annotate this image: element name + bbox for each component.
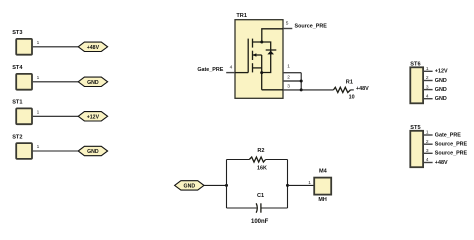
svg-text:M4: M4: [319, 168, 328, 174]
resistor R1: [334, 80, 355, 101]
channel top segment: [252, 39, 254, 48]
node RC right junction: [286, 184, 289, 187]
power port +48V: [78, 42, 107, 51]
pin 3 of ST5: [424, 148, 433, 154]
connector ST1: [12, 100, 32, 125]
gate plate: [247, 39, 249, 73]
channel bottom segment: [252, 63, 254, 72]
capacitor C1: [251, 193, 269, 225]
drain lead: [253, 29, 284, 42]
svg-text:TR1: TR1: [236, 13, 247, 19]
svg-text:1: 1: [426, 130, 429, 136]
svg-text:100nF: 100nF: [251, 219, 269, 225]
svg-text:Source_PRE: Source_PRE: [435, 151, 468, 157]
body diode branch wire: [262, 42, 271, 73]
svg-text:1: 1: [37, 144, 40, 150]
wire ST4 to GND port: [33, 81, 78, 83]
svg-text:ST3: ST3: [12, 30, 22, 36]
node pin2 junction: [300, 80, 303, 83]
mounting hole M4: [314, 168, 331, 202]
svg-text:Gate_PRE: Gate_PRE: [197, 67, 223, 73]
pin 2 of ST5: [424, 139, 433, 145]
svg-text:1: 1: [287, 64, 290, 70]
wire top branch left: [227, 159, 250, 161]
svg-text:1: 1: [426, 66, 429, 72]
wire to R1: [301, 89, 333, 91]
svg-text:1: 1: [37, 40, 40, 46]
svg-text:GND: GND: [87, 80, 99, 86]
transistor TR1: [235, 13, 283, 99]
svg-text:1: 1: [37, 109, 40, 115]
svg-text:GND: GND: [87, 149, 99, 155]
pin 4 of TR1: [226, 65, 235, 73]
pin 2 of TR1: [283, 74, 301, 81]
source bottom lead to pin 3: [262, 89, 283, 91]
power port +12V: [78, 112, 107, 121]
wire GND to RC network: [204, 184, 227, 186]
pin 3 of ST6: [424, 84, 433, 90]
svg-text:1: 1: [308, 180, 311, 186]
svg-text:2: 2: [287, 74, 290, 80]
power port GND: [78, 146, 107, 155]
svg-text:10: 10: [349, 94, 355, 100]
svg-text:4: 4: [426, 93, 429, 99]
channel middle segment: [252, 51, 254, 60]
svg-text:R2: R2: [257, 148, 264, 154]
svg-text:5: 5: [286, 21, 289, 27]
connector ST5: [410, 125, 423, 167]
power port GND: [175, 181, 204, 190]
svg-text:ST2: ST2: [12, 134, 22, 140]
source vertical wire: [261, 55, 263, 90]
svg-text:+12V: +12V: [435, 69, 448, 75]
pin 1 of ST6: [424, 66, 433, 72]
pin 4 of ST6: [424, 93, 433, 99]
svg-text:GND: GND: [435, 78, 447, 84]
body diode cathode bar: [266, 49, 277, 51]
power port GND: [78, 77, 107, 86]
connector ST2: [12, 134, 32, 159]
body diode anode triangle: [267, 51, 274, 55]
svg-text:+12V: +12V: [87, 114, 100, 120]
node pin3 junction: [300, 88, 303, 91]
wire R1 to net label: [351, 89, 354, 91]
svg-text:Source_PRE: Source_PRE: [435, 142, 468, 148]
svg-text:R1: R1: [346, 80, 353, 86]
body arrow: [253, 53, 262, 57]
pin 1 of ST5: [424, 130, 433, 136]
svg-text:2: 2: [426, 139, 429, 145]
pin 3 of TR1: [283, 83, 301, 90]
svg-text:3: 3: [426, 84, 429, 90]
svg-text:GND: GND: [435, 96, 447, 102]
svg-text:ST4: ST4: [12, 65, 23, 71]
connector ST6: [410, 62, 423, 104]
svg-text:ST1: ST1: [12, 100, 22, 106]
wire ST3 to +48V port: [33, 46, 78, 48]
svg-text:2: 2: [426, 75, 429, 81]
svg-text:4: 4: [426, 157, 429, 163]
wire top branch right: [266, 159, 288, 161]
wire bottom branch right: [262, 207, 288, 209]
pin 5 of TR1: [283, 21, 292, 29]
wire RC left vertical: [226, 160, 228, 209]
svg-text:1: 1: [37, 75, 40, 81]
svg-text:MH: MH: [318, 197, 326, 203]
pin 2 of ST6: [424, 75, 433, 81]
wire bottom branch left: [227, 207, 257, 209]
svg-text:C1: C1: [257, 193, 264, 199]
wire joining pins 1-3: [300, 73, 302, 90]
connector ST3: [12, 30, 32, 55]
svg-text:4: 4: [230, 65, 233, 71]
svg-text:3: 3: [426, 148, 429, 154]
connector ST4: [12, 65, 32, 90]
resistor R2: [249, 148, 267, 172]
svg-text:+48V: +48V: [87, 45, 100, 51]
wire RC to M4: [288, 184, 314, 186]
svg-text:+48V: +48V: [435, 160, 448, 166]
pin 4 of ST5: [424, 157, 433, 163]
svg-text:Source_PRE: Source_PRE: [295, 24, 328, 30]
source lead: [253, 67, 262, 69]
svg-text:GND: GND: [184, 183, 196, 189]
wire RC right vertical: [287, 160, 289, 209]
pin 1 of TR1: [283, 64, 301, 73]
node drain junction: [260, 41, 263, 44]
svg-text:3: 3: [287, 83, 290, 89]
wire ST2 to GND port: [33, 150, 78, 152]
node source junction: [260, 71, 263, 74]
gate lead wire: [235, 72, 248, 74]
wire ST1 to +12V port: [33, 115, 78, 117]
svg-text:Gate_PRE: Gate_PRE: [435, 132, 461, 138]
svg-text:16K: 16K: [257, 166, 267, 172]
node RC left junction: [225, 184, 228, 187]
svg-text:+48V: +48V: [356, 86, 369, 92]
svg-text:GND: GND: [435, 87, 447, 93]
